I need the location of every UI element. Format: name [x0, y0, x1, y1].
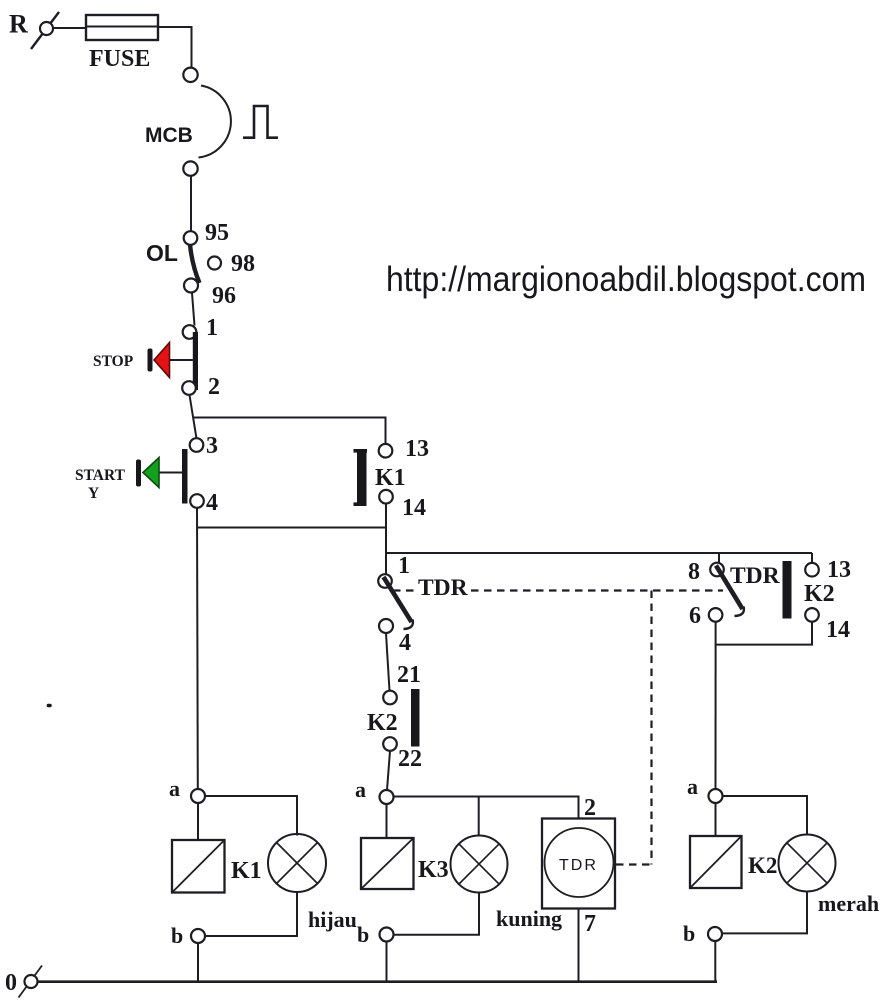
wire 14 down and main feeder: [385, 504, 387, 554]
svg-text:6: 6: [689, 603, 701, 629]
svg-text:MCB: MCB: [145, 124, 193, 147]
svg-text:22: 22: [398, 746, 422, 772]
wire b to rail: [386, 942, 388, 982]
svg-text:TDR: TDR: [730, 563, 781, 589]
wire STOP to START: [190, 395, 197, 439]
svg-text:98: 98: [231, 251, 255, 277]
wire 4 to K1 contact 14: [197, 527, 386, 529]
coil K3: [361, 838, 449, 889]
wire branch to K1 contact 13: [194, 418, 386, 445]
svg-text:K2: K2: [804, 581, 835, 607]
contact K2 (NC aux, 21-22): [367, 662, 422, 772]
svg-text:b: b: [683, 921, 695, 946]
wire OL to STOP: [192, 293, 195, 326]
node b (K1 branch): [171, 923, 205, 948]
svg-text:2: 2: [208, 374, 220, 400]
wire fuse to MCB: [158, 27, 192, 68]
pushbutton START (NO, 3-4): [75, 433, 218, 516]
svg-text:a: a: [169, 776, 180, 801]
svg-text:FUSE: FUSE: [89, 46, 150, 72]
wire b to rail: [714, 941, 716, 981]
svg-text:1: 1: [206, 315, 218, 341]
svg-text:b: b: [357, 922, 369, 947]
svg-text:a: a: [355, 777, 366, 802]
wire node a to coil K1: [197, 803, 199, 840]
wire node a to lamp merah: [723, 796, 808, 835]
svg-text:4: 4: [206, 490, 218, 516]
wire R to fuse: [53, 27, 86, 29]
wire b to rail: [197, 943, 199, 981]
timed contact TDR (8-6, right): [688, 553, 781, 629]
svg-text:b: b: [171, 923, 183, 948]
svg-text:96: 96: [212, 283, 236, 309]
svg-text:14: 14: [826, 617, 850, 643]
wire node a to coil K2: [715, 803, 717, 836]
fuse FUSE: [86, 15, 158, 72]
wire node a to coil K3: [386, 804, 388, 838]
svg-text:K1: K1: [231, 858, 262, 884]
svg-text:21: 21: [397, 662, 421, 688]
lamp hijau: [268, 834, 357, 932]
node b (K3 branch): [357, 922, 394, 947]
timer coil TDR: [542, 819, 615, 909]
svg-text:START: START: [75, 467, 126, 484]
svg-text:4: 4: [399, 630, 411, 656]
svg-text:0: 0: [5, 970, 17, 996]
svg-text:TDR: TDR: [559, 857, 598, 874]
svg-text:3: 3: [206, 433, 218, 459]
dashed link TDR coil to contacts: [393, 589, 723, 591]
svg-text:R: R: [9, 10, 28, 39]
svg-text:merah: merah: [818, 891, 879, 916]
coil K2: [690, 836, 777, 888]
wire lamp kuning to node b: [394, 893, 480, 935]
wire 22 down to node a: [387, 751, 390, 790]
svg-text:13: 13: [827, 557, 851, 583]
node a (K1 branch): [169, 776, 205, 803]
svg-text:95: 95: [205, 220, 229, 246]
svg-text:14: 14: [402, 495, 426, 521]
lamp merah: [779, 835, 880, 917]
svg-text:13: 13: [405, 436, 429, 462]
svg-text:a: a: [687, 774, 698, 799]
ink speck: [47, 704, 52, 707]
node 0 (neutral terminal): [5, 966, 42, 998]
pulse icon: [243, 106, 278, 138]
lamp kuning: [451, 836, 563, 932]
overload contact OL (95-96, 98): [146, 220, 255, 309]
svg-text:kuning: kuning: [496, 906, 562, 931]
wire node a to TDR coil and lamp: [394, 797, 579, 819]
svg-text:2: 2: [584, 795, 596, 821]
svg-text:hijau: hijau: [308, 907, 357, 932]
contact K1 (NO aux, 13-14): [354, 436, 430, 521]
svg-text:K3: K3: [418, 857, 449, 883]
node b (K2 branch): [683, 921, 722, 946]
node R (phase terminal): [9, 10, 59, 50]
wire node a to lamp hijau: [205, 796, 297, 836]
dashed link vertical: [650, 591, 652, 865]
node a (K2 branch): [687, 774, 723, 803]
pushbutton STOP (NC, 1-2): [93, 315, 220, 400]
rail 0 (neutral bus): [38, 980, 718, 983]
breaker MCB: [145, 68, 231, 176]
svg-text:7: 7: [584, 911, 596, 937]
svg-text:OL: OL: [146, 240, 178, 266]
coil K1: [172, 840, 262, 893]
wire MCB to OL: [190, 176, 192, 232]
wire down to K2 coil branch: [715, 645, 717, 790]
contact K2 (NO aux, 13-14, right): [783, 553, 852, 643]
svg-text:K1: K1: [375, 465, 406, 491]
wire START down to coil K1: [196, 508, 199, 790]
wire TDR-4 down: [386, 634, 390, 691]
wire 6/14 join: [716, 622, 812, 645]
wire lamp merah to node b: [722, 892, 807, 934]
svg-text:STOP: STOP: [93, 353, 134, 370]
svg-text:K2: K2: [367, 710, 398, 736]
svg-text:8: 8: [688, 559, 700, 585]
wire lamp hijau to node b: [205, 892, 297, 936]
timed contact TDR (1-4, NC timed): [378, 553, 413, 656]
svg-text:Y: Y: [88, 485, 99, 502]
wire TDR coil to rail: [578, 909, 580, 982]
svg-text:1: 1: [398, 553, 410, 579]
node a (K3 branch): [355, 777, 394, 804]
svg-text:http://margionoabdil.blogspot.: http://margionoabdil.blogspot.com: [386, 260, 866, 299]
svg-text:TDR: TDR: [418, 575, 469, 601]
dashed link to coil: [616, 863, 652, 865]
svg-text:K2: K2: [748, 853, 777, 878]
